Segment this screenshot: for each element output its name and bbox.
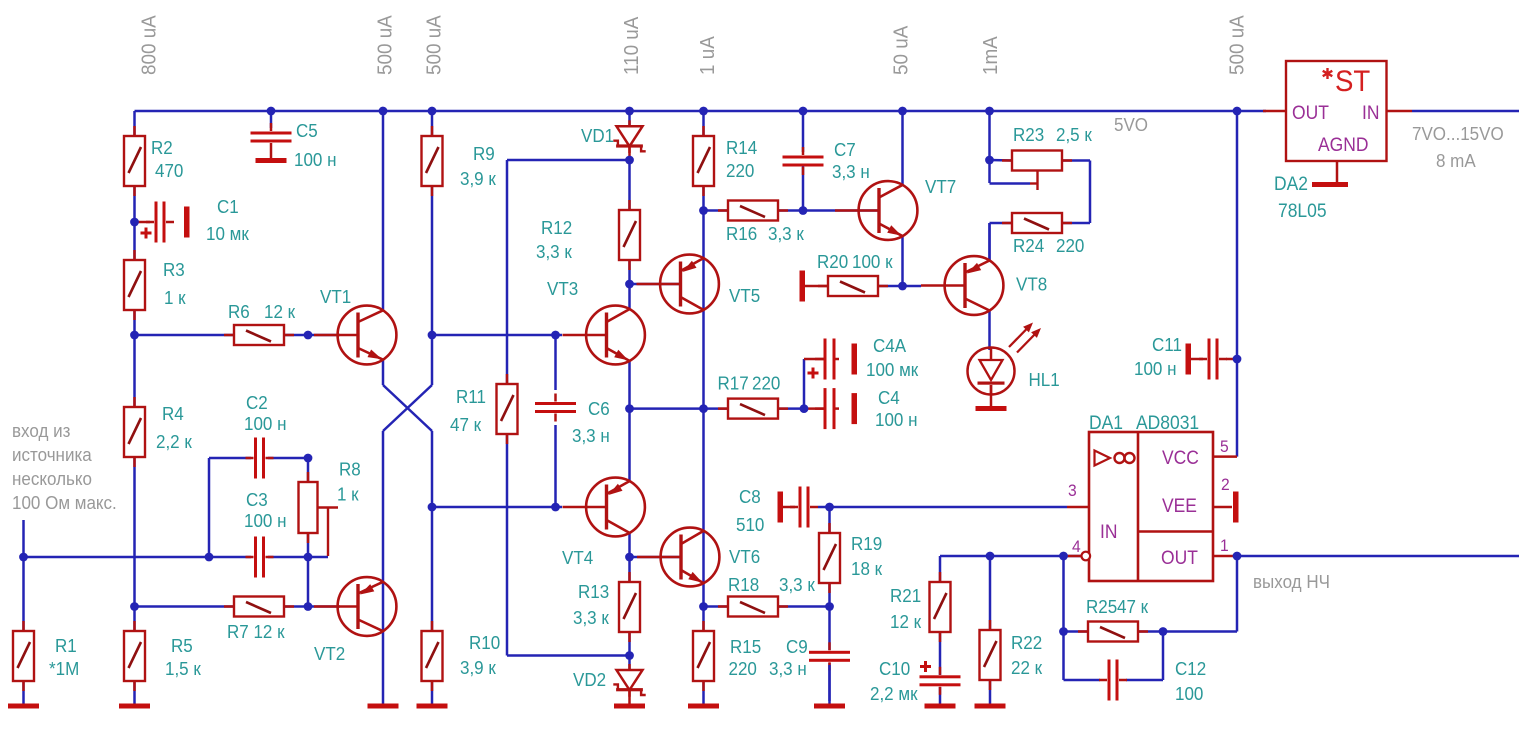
- ground: [8, 704, 39, 709]
- wire: [133, 185, 136, 261]
- svg-text:47 к: 47 к: [1117, 596, 1148, 617]
- ground: [800, 271, 806, 302]
- svg-text:22 к: 22 к: [1011, 657, 1042, 678]
- svg-text:VD2: VD2: [573, 669, 606, 690]
- junction: [898, 282, 907, 291]
- wire: [1236, 556, 1239, 632]
- capacitor C8: [790, 487, 818, 528]
- svg-text:R4: R4: [162, 403, 184, 424]
- wire: [989, 556, 992, 631]
- junction: [625, 651, 634, 660]
- svg-text:R22: R22: [1011, 632, 1042, 653]
- wire: [1062, 556, 1065, 680]
- ground: [184, 207, 190, 238]
- junction: [428, 107, 437, 116]
- wire: [133, 111, 136, 137]
- wire: [307, 532, 310, 607]
- ground: [1233, 492, 1239, 523]
- wire input supply: [1412, 110, 1519, 113]
- svg-text:R25: R25: [1086, 596, 1117, 617]
- svg-text:*1М: *1М: [49, 658, 79, 679]
- junction: [428, 331, 437, 340]
- wire: [704, 605, 730, 608]
- wire: [628, 146, 631, 161]
- wire: [940, 555, 1082, 558]
- wire: [988, 111, 991, 183]
- ground: [119, 704, 150, 709]
- svg-text:вход из: вход из: [12, 420, 70, 441]
- wire: [1163, 630, 1237, 633]
- resistor R24: [1002, 213, 1072, 233]
- svg-text:500 uA: 500 uA: [1226, 14, 1249, 75]
- wire: [628, 690, 631, 704]
- svg-text:C11: C11: [1152, 334, 1182, 355]
- svg-text:5VO: 5VO: [1114, 114, 1148, 135]
- ground: [688, 704, 719, 709]
- wire DA2 IN pin: [1387, 110, 1413, 113]
- svg-text:R16: R16: [726, 223, 757, 244]
- junction: [551, 331, 560, 340]
- resistor R2: [124, 126, 145, 196]
- wire DA2 AGND pin: [1336, 161, 1339, 182]
- svg-text:1 uA: 1 uA: [696, 35, 719, 75]
- wire: [554, 335, 557, 390]
- resistor R21: [930, 572, 951, 642]
- wire output: [1237, 555, 1519, 558]
- wire: [1061, 159, 1090, 162]
- svg-text:R15: R15: [730, 636, 761, 657]
- wire: [628, 111, 631, 126]
- wire: [133, 309, 136, 408]
- wire: [988, 223, 991, 261]
- svg-text:R23: R23: [1013, 124, 1044, 145]
- wire: [630, 556, 681, 559]
- wire: [1064, 630, 1090, 633]
- wire: [804, 358, 824, 361]
- resistor R15: [693, 621, 714, 691]
- capacitor C11: [1199, 339, 1227, 380]
- wire: [283, 605, 340, 608]
- transistor VT2: [314, 577, 396, 636]
- wire: [1226, 358, 1237, 361]
- svg-text:100 мк: 100 мк: [866, 359, 918, 380]
- svg-text:выход НЧ: выход НЧ: [1253, 571, 1330, 592]
- svg-text:110 uA: 110 uA: [620, 16, 643, 75]
- svg-text:VCC: VCC: [1162, 446, 1199, 468]
- svg-text:HL1: HL1: [1029, 369, 1060, 390]
- wire: [777, 209, 879, 212]
- resistor R18: [718, 597, 788, 617]
- capacitor C3: [246, 537, 274, 578]
- wire: [431, 431, 434, 632]
- svg-text:R7 12 к: R7 12 к: [227, 621, 285, 642]
- wire: [133, 456, 136, 632]
- pin 4 inversion bubble: [1082, 552, 1091, 561]
- wire input: [22, 520, 25, 557]
- wire: [702, 111, 705, 137]
- svg-text:VT2: VT2: [314, 643, 345, 664]
- junction: [625, 280, 634, 289]
- junction: [625, 404, 634, 413]
- svg-text:3,3 н: 3,3 н: [832, 161, 870, 182]
- wire: [1064, 679, 1101, 682]
- svg-text:50 uA: 50 uA: [890, 25, 913, 75]
- wire pin 3: [1067, 506, 1089, 509]
- wire: [630, 283, 682, 286]
- wire: [270, 111, 273, 128]
- wire pin 5: [1213, 455, 1237, 458]
- wire: [828, 507, 831, 534]
- junction: [304, 331, 313, 340]
- svg-text:AGND: AGND: [1318, 133, 1368, 155]
- svg-text:3,9 к: 3,9 к: [460, 657, 496, 678]
- junction: [986, 552, 995, 561]
- svg-text:C2: C2: [246, 392, 268, 413]
- wire: [828, 663, 831, 705]
- wire: [135, 221, 151, 224]
- wire: [432, 334, 562, 337]
- transistor VT1: [314, 306, 396, 365]
- wire: [628, 533, 631, 583]
- wire: [990, 182, 1031, 185]
- wire: [818, 506, 1067, 509]
- svg-text:500 uA: 500 uA: [423, 14, 446, 75]
- wire pin 2: [1213, 506, 1232, 509]
- svg-text:R17: R17: [718, 373, 749, 394]
- svg-text:1mA: 1mA: [979, 35, 1002, 75]
- svg-text:VT5: VT5: [729, 285, 760, 306]
- svg-text:VEE: VEE: [1162, 494, 1197, 516]
- wire: [630, 407, 730, 410]
- resistor R5: [124, 621, 145, 691]
- transistor VT5: [637, 255, 719, 314]
- junction: [379, 107, 388, 116]
- capacitor C10: [920, 667, 961, 695]
- svg-text:C3: C3: [246, 489, 268, 510]
- wire: [209, 457, 251, 460]
- capacitor C4: [815, 388, 839, 429]
- svg-text:VT8: VT8: [1016, 274, 1047, 295]
- junction: [799, 107, 808, 116]
- junction: [304, 602, 313, 611]
- svg-text:2,2 к: 2,2 к: [156, 431, 192, 452]
- wire: [990, 159, 1014, 162]
- wire VT4 base: [432, 506, 562, 509]
- svg-text:100 Ом макс.: 100 Ом макс.: [12, 492, 117, 513]
- wire: [22, 557, 25, 632]
- svg-text:C1: C1: [217, 196, 239, 217]
- svg-text:220: 220: [729, 658, 757, 679]
- wire: [802, 165, 805, 211]
- svg-text:100 н: 100 н: [1134, 358, 1177, 379]
- junction: [205, 553, 214, 562]
- ground: [852, 344, 858, 375]
- junction: [699, 107, 708, 116]
- junction: [825, 602, 834, 611]
- svg-text:R24: R24: [1013, 235, 1044, 256]
- ground: [614, 704, 645, 709]
- svg-text:ST: ST: [1335, 65, 1370, 98]
- svg-text:R19: R19: [851, 533, 882, 554]
- resistor R3: [124, 250, 145, 320]
- svg-text:7VO...15VO: 7VO...15VO: [1412, 123, 1504, 144]
- wire: [804, 407, 824, 410]
- svg-text:3,3 к: 3,3 к: [768, 223, 804, 244]
- wire: [1236, 111, 1239, 457]
- wire pin 4: [1064, 555, 1082, 558]
- svg-text:510: 510: [736, 514, 764, 535]
- svg-text:R21: R21: [890, 585, 921, 606]
- svg-text:78L05: 78L05: [1278, 199, 1327, 221]
- svg-text:1 к: 1 к: [164, 287, 186, 308]
- svg-text:4: 4: [1072, 537, 1081, 556]
- label *ST asterisk: [1323, 68, 1333, 79]
- svg-text:IN: IN: [1100, 520, 1117, 542]
- svg-text:R3: R3: [163, 259, 185, 280]
- resistor R1: [13, 621, 34, 691]
- svg-text:R10: R10: [469, 632, 500, 653]
- svg-text:VT7: VT7: [925, 176, 956, 197]
- resistor R19: [819, 523, 840, 593]
- wire: [702, 185, 705, 607]
- resistor R12: [619, 200, 640, 270]
- ground: [256, 158, 287, 163]
- wire R23 wiper: [1030, 182, 1038, 184]
- wire +5V rail: [135, 110, 1267, 113]
- junction: [800, 404, 809, 413]
- svg-text:100 к: 100 к: [852, 251, 893, 272]
- junction: [304, 454, 313, 463]
- wire: [939, 556, 942, 583]
- capacitor C4A: [815, 339, 839, 380]
- wire: [939, 687, 942, 705]
- junction: [1233, 107, 1242, 116]
- ground: [814, 704, 845, 709]
- wire: [939, 631, 942, 675]
- wire: [803, 359, 806, 409]
- schottky diode VD2: [613, 664, 645, 697]
- svg-text:C12: C12: [1175, 658, 1206, 679]
- svg-text:R18: R18: [728, 574, 759, 595]
- svg-text:VT3: VT3: [547, 278, 578, 299]
- ground: [925, 704, 956, 709]
- transistor VT7: [835, 181, 917, 240]
- resistor R14: [693, 126, 714, 196]
- wire: [802, 111, 805, 152]
- ground: [1312, 182, 1348, 187]
- svg-text:5: 5: [1220, 437, 1229, 456]
- svg-text:C6: C6: [588, 398, 610, 419]
- wire: [990, 385, 993, 406]
- voltage regulator DA2: [1286, 61, 1387, 161]
- resistor R9: [422, 126, 443, 196]
- resistor R23: [1002, 151, 1072, 171]
- svg-text:IN: IN: [1362, 101, 1379, 123]
- wire: [431, 680, 434, 705]
- junction: [625, 156, 634, 165]
- wire: [628, 631, 631, 670]
- wire: [431, 111, 434, 137]
- svg-text:R1: R1: [55, 635, 77, 656]
- capacitor C7: [783, 147, 824, 175]
- polarity + of C4A: [808, 368, 819, 379]
- transistor VT3: [563, 306, 645, 365]
- svg-text:DA1: DA1: [1089, 411, 1123, 433]
- transistor VT8: [921, 256, 1003, 315]
- svg-text:C5: C5: [296, 120, 318, 141]
- wire: [1137, 630, 1163, 633]
- op-amp DA1: [1089, 432, 1213, 581]
- svg-text:R8: R8: [339, 459, 361, 480]
- wire: [507, 654, 630, 657]
- ground: [975, 704, 1006, 709]
- wire: [1126, 679, 1163, 682]
- transistor VT6: [637, 528, 719, 587]
- svg-text:AD8031: AD8031: [1136, 411, 1199, 433]
- wire: [876, 285, 903, 288]
- svg-text:C4A: C4A: [873, 335, 906, 356]
- svg-text:C7: C7: [834, 139, 856, 160]
- svg-text:R5: R5: [171, 635, 193, 656]
- wire: [382, 431, 385, 705]
- wire: [22, 680, 25, 705]
- svg-text:C4: C4: [878, 387, 900, 408]
- wire: [783, 506, 795, 509]
- junction: [1233, 355, 1242, 364]
- resistor R25: [1078, 622, 1148, 642]
- wire: [989, 679, 992, 705]
- resistor R16: [718, 201, 788, 221]
- svg-text:470: 470: [155, 160, 183, 181]
- svg-text:VT6: VT6: [729, 546, 760, 567]
- svg-text:100 н: 100 н: [294, 149, 337, 170]
- svg-text:220: 220: [726, 160, 754, 181]
- wire: [1061, 222, 1090, 225]
- resistor R22: [980, 620, 1001, 690]
- junction: [304, 553, 313, 562]
- svg-text:10 мк: 10 мк: [206, 223, 249, 244]
- junction: [130, 331, 139, 340]
- svg-text:2,2 мк: 2,2 мк: [870, 683, 918, 704]
- svg-text:100: 100: [1175, 683, 1203, 704]
- wire: [506, 433, 509, 656]
- svg-text:VT4: VT4: [562, 547, 593, 568]
- svg-text:R6: R6: [228, 301, 250, 322]
- junction: [1233, 552, 1242, 561]
- svg-text:220: 220: [752, 373, 780, 394]
- svg-text:C10: C10: [879, 658, 910, 679]
- svg-text:100 н: 100 н: [244, 510, 287, 531]
- junction: [699, 602, 708, 611]
- wire: [1162, 632, 1165, 681]
- svg-text:несколько: несколько: [12, 468, 92, 489]
- wire: [777, 407, 804, 410]
- wire: [628, 259, 631, 309]
- svg-text:1,5 к: 1,5 к: [165, 658, 201, 679]
- junction: [625, 107, 634, 116]
- resistor R4: [124, 397, 145, 467]
- polarity + of C10: [920, 661, 931, 672]
- trimmer R8: [299, 472, 318, 543]
- wire: [506, 160, 509, 385]
- wire: [828, 582, 831, 650]
- wire: [382, 111, 385, 310]
- wire: [628, 160, 631, 211]
- ground: [852, 393, 858, 424]
- svg-text:3,9 к: 3,9 к: [460, 168, 496, 189]
- wire VT8 base: [903, 285, 922, 288]
- ground: [417, 704, 448, 709]
- capacitor C1: [146, 202, 174, 243]
- wire: [901, 236, 904, 286]
- junction: [625, 553, 634, 562]
- wire: [268, 457, 308, 460]
- wire: [702, 607, 705, 633]
- ground: [778, 492, 784, 523]
- resistor R7: [224, 597, 294, 617]
- ground: [368, 704, 399, 709]
- resistor R10: [422, 621, 443, 691]
- svg-text:VT1: VT1: [320, 286, 351, 307]
- resistor R13: [619, 572, 640, 642]
- wire: [805, 285, 830, 288]
- wire: [1089, 161, 1092, 224]
- svg-text:3,3 н: 3,3 н: [769, 658, 807, 679]
- wire R8 wiper: [318, 506, 339, 508]
- svg-text:3,3 н: 3,3 н: [572, 425, 610, 446]
- resistor R11: [497, 374, 518, 444]
- polarity + of C1: [141, 228, 152, 239]
- junction: [1059, 552, 1068, 561]
- wire: [507, 159, 630, 162]
- svg-text:800 uA: 800 uA: [138, 14, 161, 75]
- wire: [135, 334, 236, 337]
- junction: [985, 156, 994, 165]
- svg-text:R11: R11: [456, 386, 486, 407]
- svg-text:OUT: OUT: [1161, 546, 1198, 568]
- wire: [270, 151, 273, 158]
- resistor R6: [224, 325, 294, 345]
- svg-text:R13: R13: [578, 581, 609, 602]
- junction: [551, 503, 560, 512]
- resistor R20: [818, 276, 888, 296]
- svg-text:3,3 к: 3,3 к: [779, 574, 815, 595]
- svg-text:100 н: 100 н: [875, 409, 918, 430]
- wire: [1191, 358, 1203, 361]
- svg-text:18 к: 18 к: [851, 558, 882, 579]
- junction: [898, 107, 907, 116]
- capacitor C5: [251, 123, 292, 151]
- wire: [268, 556, 328, 559]
- wire: [704, 209, 730, 212]
- svg-text:R9: R9: [473, 143, 495, 164]
- wire R23 wiper: [1036, 170, 1038, 190]
- junction: [19, 553, 28, 562]
- wire: [828, 665, 831, 701]
- junction: [267, 107, 276, 116]
- wire: [208, 458, 211, 557]
- svg-text:источника: источника: [12, 444, 92, 465]
- svg-text:1: 1: [1220, 536, 1229, 555]
- wire: [988, 311, 991, 351]
- junction: [825, 503, 834, 512]
- schottky diode VD1: [613, 120, 645, 153]
- svg-text:C8: C8: [739, 486, 761, 507]
- capacitor C9: [809, 642, 850, 670]
- wire R8 wiper: [327, 508, 329, 557]
- junction: [799, 206, 808, 215]
- svg-text:R2: R2: [151, 137, 173, 158]
